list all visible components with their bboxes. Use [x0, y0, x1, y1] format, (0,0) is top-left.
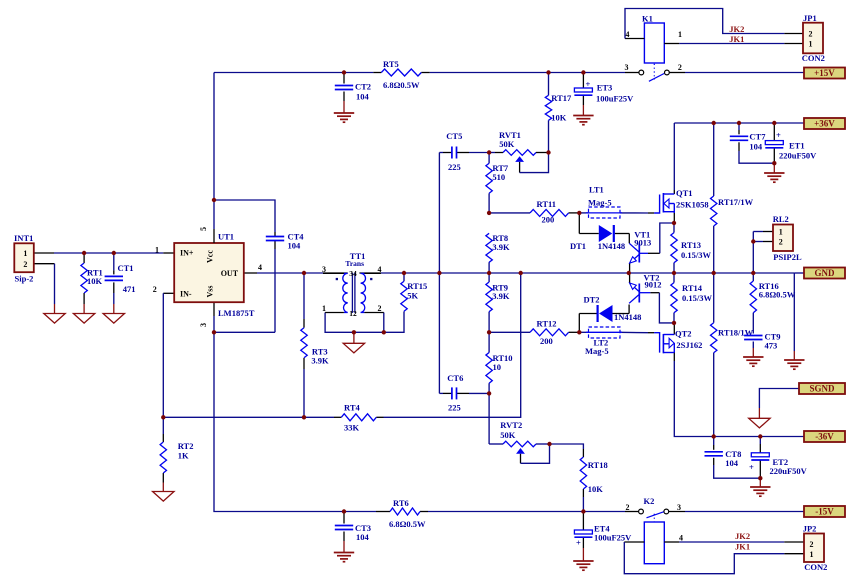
- resistor RT18/1W: [711, 323, 717, 353]
- wire bias chain x=489: [488, 153, 490, 164]
- resistor RT2 1K: [160, 442, 166, 473]
- svg-text:100uF25V: 100uF25V: [594, 533, 632, 543]
- wire CT1 leads: [113, 253, 115, 270]
- svg-text:RT4: RT4: [344, 403, 361, 413]
- connector RL2 PSIP2L: [773, 225, 793, 252]
- svg-text:RT5: RT5: [383, 59, 399, 69]
- svg-text:ET1: ET1: [789, 141, 805, 151]
- wire RVT1 row: [489, 152, 495, 154]
- svg-text:1: 1: [810, 550, 814, 559]
- resistor RT15 5K: [401, 281, 407, 311]
- ground CT9 earth: [743, 356, 763, 358]
- svg-text:RT2: RT2: [178, 441, 194, 451]
- svg-text:Sip-2: Sip-2: [15, 274, 34, 284]
- svg-text:1: 1: [678, 30, 682, 39]
- resistor RT4 33K: [341, 414, 376, 421]
- resistor RT17 10K: [545, 95, 551, 120]
- wire CT3 branch: [343, 512, 345, 524]
- svg-text:Vcc: Vcc: [206, 250, 215, 263]
- wire QT2 source to -36V rail: [673, 353, 675, 362]
- svg-text:3.9K: 3.9K: [492, 242, 510, 252]
- svg-text:LT1: LT1: [589, 185, 604, 195]
- ground TT1 triangle: [343, 343, 364, 353]
- svg-text:+: +: [776, 130, 781, 140]
- wire Vcc vertical: [213, 73, 215, 230]
- capacitor CT2 104: [335, 85, 353, 87]
- wire RVT2 row: [489, 443, 503, 445]
- svg-text:JK1: JK1: [735, 542, 750, 552]
- svg-text:2: 2: [23, 260, 27, 269]
- svg-text:CON2: CON2: [802, 53, 825, 63]
- wire RL2 hookup: [763, 231, 773, 233]
- wire TT1 ground stem: [353, 332, 355, 343]
- wire IN- vertical: [163, 292, 174, 294]
- svg-text:220uF50V: 220uF50V: [779, 151, 817, 161]
- power port GND: [804, 268, 845, 279]
- resistor RT11 200: [530, 209, 569, 216]
- capacitor ET4 100uF25V: [574, 530, 592, 534]
- wire RT13 leads: [673, 223, 675, 233]
- svg-text:9013: 9013: [634, 238, 651, 248]
- wire ET1 branch: [773, 123, 775, 141]
- svg-text:RT17: RT17: [551, 93, 572, 103]
- potentiometer RVT2 50K: [503, 441, 536, 447]
- wire transformer secondary loop: [325, 311, 404, 332]
- capacitor ET2 220uF50V: [751, 453, 769, 457]
- junction dots: [342, 70, 346, 74]
- capacitor CT5 225: [451, 147, 453, 159]
- wire feedback net: [163, 416, 334, 418]
- svg-text:+36V: +36V: [814, 118, 835, 128]
- svg-text:1: 1: [23, 249, 27, 258]
- svg-text:225: 225: [448, 162, 461, 172]
- ground CT1 triangle: [103, 314, 124, 324]
- svg-text:RT17/1W: RT17/1W: [718, 197, 754, 207]
- wire ET3 branch: [582, 73, 584, 89]
- wire CT5-CT6 vertical: [438, 153, 440, 394]
- svg-text:RT11: RT11: [537, 199, 557, 209]
- svg-text:0.15/3W: 0.15/3W: [681, 250, 711, 260]
- wire +15V rail: [214, 72, 373, 74]
- svg-text:33K: 33K: [344, 423, 360, 433]
- svg-text:50K: 50K: [499, 139, 515, 149]
- inductor LT2 Mag-5: [589, 327, 621, 338]
- wire CT2 branch: [343, 73, 345, 84]
- ground RT2 triangle: [153, 492, 174, 502]
- svg-text:RVT2: RVT2: [500, 420, 522, 430]
- diode DT1 1N4148: [599, 225, 613, 242]
- capacitor CT7 104: [730, 135, 748, 137]
- transformer TT1 polarity dots: [336, 278, 338, 280]
- svg-text:Mag-5: Mag-5: [585, 346, 609, 356]
- wire RT6 leads: [376, 511, 390, 513]
- wire QT2 drain to node: [673, 323, 675, 335]
- potentiometer RVT1 50K: [503, 150, 536, 156]
- svg-text:2: 2: [810, 540, 814, 549]
- svg-text:1: 1: [809, 40, 813, 49]
- svg-text:6.8Ω0.5W: 6.8Ω0.5W: [759, 290, 796, 300]
- resistor RT16 6.8 0.5W: [750, 281, 756, 313]
- transistor VT2 9012: [638, 284, 640, 303]
- svg-text:CT5: CT5: [446, 131, 462, 141]
- ground GND earth: [784, 359, 804, 361]
- capacitor ET1 220uF50V: [765, 141, 783, 145]
- wire output rail: [244, 272, 257, 274]
- connector JP2 CON2: [804, 534, 824, 563]
- svg-text:100uF25V: 100uF25V: [596, 94, 634, 104]
- svg-text:1: 1: [155, 246, 159, 255]
- wire QT1 drain to +36V: [673, 123, 675, 190]
- ground ET4 earth: [573, 560, 593, 562]
- svg-text:JP2: JP2: [803, 524, 817, 534]
- svg-text:SGND: SGND: [809, 383, 835, 393]
- resistor RT5 6.8 0.5W: [381, 69, 421, 76]
- svg-text:2: 2: [809, 30, 813, 39]
- svg-text:K1: K1: [642, 14, 653, 24]
- svg-text:12: 12: [349, 309, 357, 318]
- resistor RT1 10K: [81, 263, 87, 293]
- power port +36V: [804, 118, 845, 129]
- connector INT1 Sip-2: [14, 243, 34, 272]
- resistor RT17/1W: [711, 196, 717, 226]
- wire RT17/1W branch: [713, 123, 715, 196]
- svg-text:104: 104: [725, 458, 739, 468]
- wire RT12 row: [489, 331, 530, 333]
- svg-text:2: 2: [626, 503, 630, 512]
- svg-text:UT1: UT1: [218, 232, 234, 242]
- svg-text:104: 104: [356, 92, 370, 102]
- svg-text:4: 4: [378, 265, 382, 274]
- wire K1 coil to JP1: [625, 38, 644, 40]
- resistor RT7 510: [486, 163, 492, 193]
- svg-text:CON2: CON2: [804, 562, 827, 572]
- svg-text:JK2: JK2: [729, 24, 744, 34]
- svg-text:6.8Ω0.5W: 6.8Ω0.5W: [389, 519, 426, 529]
- wire INT1 pin2 drop: [34, 263, 55, 265]
- capacitor CT1 471: [105, 275, 123, 277]
- svg-text:2: 2: [678, 63, 682, 72]
- wire LT2 to QT2 gate: [579, 331, 588, 333]
- svg-text:PSIP2L: PSIP2L: [773, 252, 802, 262]
- svg-text:471: 471: [123, 284, 136, 294]
- svg-text:RT13: RT13: [681, 240, 701, 250]
- capacitor CT9 473: [744, 335, 762, 337]
- svg-text:0.15/3W: 0.15/3W: [682, 293, 712, 303]
- svg-text:1: 1: [322, 304, 326, 313]
- capacitor CT3 104: [335, 525, 353, 527]
- svg-text:+: +: [576, 538, 581, 548]
- inductor LT1 Mag-5: [589, 207, 621, 218]
- power port -15V: [804, 506, 845, 517]
- svg-text:1N4148: 1N4148: [614, 312, 641, 322]
- wire RT3 leads: [303, 273, 305, 319]
- svg-text:ET3: ET3: [597, 83, 613, 93]
- svg-text:QT2: QT2: [675, 329, 692, 339]
- wire RT18/1W branch: [713, 273, 715, 323]
- wire RT2 branch: [162, 417, 164, 434]
- svg-text:104: 104: [749, 142, 763, 152]
- svg-text:RT6: RT6: [393, 498, 409, 508]
- svg-text:DT1: DT1: [570, 241, 586, 251]
- svg-text:200: 200: [542, 215, 555, 225]
- relay K1: [644, 23, 664, 63]
- ground ET2 earth: [750, 486, 770, 488]
- wire CT7 branch: [738, 123, 740, 130]
- svg-text:JP1: JP1: [803, 13, 817, 23]
- transformer TT1 primary winding: [343, 273, 348, 312]
- connector JP1 CON2: [803, 23, 823, 54]
- relay K2: [644, 522, 664, 564]
- svg-text:Mag-5: Mag-5: [588, 198, 612, 208]
- wire GND port drop: [794, 272, 804, 274]
- svg-text:5K: 5K: [407, 291, 418, 301]
- wire +36V rail: [674, 122, 804, 124]
- svg-text:+15V: +15V: [814, 68, 835, 78]
- svg-text:10K: 10K: [588, 484, 604, 494]
- resistor RT9 3.9K: [486, 282, 492, 312]
- svg-text:4: 4: [258, 263, 262, 272]
- svg-text:200: 200: [540, 336, 553, 346]
- resistor RT13 0.15/3W: [671, 233, 677, 263]
- power port SGND: [799, 383, 845, 394]
- svg-text:1: 1: [779, 228, 783, 237]
- svg-text:104: 104: [356, 532, 370, 542]
- wire RT4 leads: [334, 416, 341, 418]
- resistor RT14 0.15/3W: [671, 283, 677, 313]
- switch K1 contacts: [639, 70, 644, 75]
- wire RT5 leads: [373, 72, 381, 74]
- wire CT4 top branch: [214, 200, 275, 232]
- wire RVT1 wiper loop: [519, 162, 521, 173]
- resistor RT10 10: [486, 353, 492, 384]
- wire CT4 bottom: [274, 241, 276, 250]
- svg-text:CT2: CT2: [355, 82, 371, 92]
- svg-text:+: +: [586, 79, 591, 89]
- svg-text:5: 5: [199, 227, 208, 231]
- wire RT1 leads: [83, 253, 85, 263]
- wire LT1 to QT1 gate: [579, 212, 588, 214]
- svg-text:3.9K: 3.9K: [492, 291, 510, 301]
- ground ET1 earth: [764, 172, 784, 174]
- op-amp U T1 LM1875T: [174, 243, 244, 302]
- transistor QT2 2SJ162: [654, 333, 660, 353]
- ground SGND triangle: [749, 418, 770, 428]
- svg-text:JK1: JK1: [729, 34, 744, 44]
- svg-text:RT12: RT12: [537, 319, 557, 329]
- svg-text:220uF50V: 220uF50V: [770, 466, 808, 476]
- svg-text:3: 3: [322, 265, 326, 274]
- diode DT2 1N4148: [599, 305, 613, 322]
- ground CT3 earth: [334, 552, 354, 554]
- svg-text:6.8Ω0.5W: 6.8Ω0.5W: [383, 80, 420, 90]
- resistor RT3 3.9K: [301, 328, 307, 358]
- wire K2 coil to JP2: [664, 541, 679, 543]
- svg-text:4: 4: [679, 534, 683, 543]
- svg-text:2SJ162: 2SJ162: [676, 340, 702, 350]
- wire ET2 branch: [759, 437, 761, 445]
- wire -15V rail: [214, 332, 376, 511]
- svg-text:CT7: CT7: [749, 132, 766, 142]
- wire CT5 leads: [443, 152, 452, 154]
- svg-text:RT14: RT14: [682, 283, 703, 293]
- svg-text:JK2: JK2: [735, 531, 750, 541]
- transistor VT1 9013: [638, 244, 640, 263]
- resistor RT12 200: [530, 329, 569, 336]
- svg-text:10K: 10K: [87, 276, 103, 286]
- capacitor CT6 225: [451, 387, 453, 399]
- svg-text:1N4148: 1N4148: [598, 241, 625, 251]
- ground INT1 triangle: [44, 314, 65, 324]
- resistor RT8 3.9K: [486, 233, 492, 262]
- wire RVT2 wiper loop: [520, 454, 522, 464]
- svg-text:DT2: DT2: [584, 295, 600, 305]
- wire VT2 base to RT14 bottom: [650, 292, 659, 294]
- wire RVT2 to RT18: [550, 444, 584, 449]
- svg-text:3: 3: [199, 323, 208, 327]
- wire RT11 row: [489, 212, 530, 214]
- power port +15V: [804, 68, 845, 79]
- switch K2 contacts: [639, 509, 644, 514]
- svg-text:2: 2: [378, 304, 382, 313]
- svg-text:473: 473: [765, 341, 778, 351]
- svg-text:RT18: RT18: [588, 460, 608, 470]
- wire DT2 hookup: [578, 314, 580, 333]
- wire SGND drop: [759, 389, 804, 409]
- wire CT6 leads: [443, 392, 452, 394]
- wire VT1 emitter to rail: [629, 263, 631, 273]
- svg-text:IN+: IN+: [180, 249, 194, 258]
- svg-text:50K: 50K: [500, 430, 516, 440]
- wire DT1 hookup: [578, 213, 580, 234]
- svg-text:-36V: -36V: [815, 431, 834, 441]
- svg-text:2: 2: [153, 285, 157, 294]
- svg-text:225: 225: [448, 403, 461, 413]
- svg-text:CT1: CT1: [118, 263, 134, 273]
- power port -36V: [804, 431, 845, 442]
- svg-text:LM1875T: LM1875T: [218, 308, 255, 318]
- transformer TT1 leads: [323, 272, 344, 274]
- wire RT14 leads: [673, 273, 675, 283]
- svg-text:104: 104: [288, 241, 302, 251]
- svg-text:Vss: Vss: [206, 285, 215, 297]
- svg-text:4: 4: [626, 30, 630, 39]
- svg-text:1K: 1K: [178, 451, 189, 461]
- svg-text:2SK1058: 2SK1058: [676, 200, 709, 210]
- svg-text:K2: K2: [644, 496, 655, 506]
- svg-text:34: 34: [349, 269, 357, 278]
- wire RT16-CT9 branch: [752, 273, 754, 281]
- svg-text:3: 3: [625, 63, 629, 72]
- wire RT18 bottom: [582, 489, 584, 497]
- svg-text:3: 3: [677, 503, 681, 512]
- svg-text:+: +: [749, 462, 754, 472]
- svg-text:Trans: Trans: [345, 259, 364, 268]
- svg-text:10: 10: [493, 362, 502, 372]
- transformer TT1 secondary winding: [361, 273, 366, 312]
- wire VT1 base to RT13 top: [648, 252, 660, 254]
- svg-text:9012: 9012: [645, 280, 662, 290]
- wire Vss pin3 down: [213, 302, 215, 316]
- svg-text:RT15: RT15: [407, 281, 427, 291]
- transistor QT1 2SK1058: [654, 195, 660, 214]
- capacitor CT8 104: [705, 451, 723, 453]
- svg-text:RL2: RL2: [773, 214, 789, 224]
- svg-text:OUT: OUT: [221, 269, 239, 278]
- wire RT17 branch: [548, 73, 550, 96]
- capacitor CT4 104: [266, 236, 284, 238]
- wire input to IN+: [34, 252, 54, 254]
- wire ET4 branch: [582, 512, 584, 531]
- ground RT1 triangle: [73, 314, 94, 324]
- wire VT2 emitter to rail: [629, 273, 631, 283]
- svg-text:510: 510: [492, 172, 505, 182]
- svg-text:3.9K: 3.9K: [311, 356, 329, 366]
- ground CT2 earth: [334, 112, 354, 114]
- resistor RT18 10K: [580, 457, 586, 489]
- transformer TT1 core: [351, 273, 353, 313]
- svg-text:QT1: QT1: [676, 188, 693, 198]
- wire CT8 branch: [713, 437, 715, 446]
- svg-text:CT6: CT6: [447, 373, 463, 383]
- svg-text:2: 2: [779, 238, 783, 247]
- wire QT1 source to node: [673, 212, 675, 223]
- resistor RT6 6.8 0.5W: [390, 508, 420, 515]
- svg-text:INT1: INT1: [14, 233, 33, 243]
- svg-text:GND: GND: [815, 268, 836, 278]
- capacitor ET3 100uF25V: [574, 88, 592, 92]
- svg-text:10K: 10K: [551, 113, 567, 123]
- svg-text:-15V: -15V: [815, 506, 834, 516]
- svg-text:IN-: IN-: [180, 290, 192, 299]
- ground ET3 earth: [573, 115, 593, 117]
